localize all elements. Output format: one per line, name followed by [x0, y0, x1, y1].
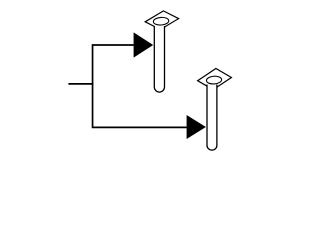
- indicator E2: tube stem: [207, 85, 217, 151]
- indicator E1: diamond head: [145, 11, 178, 30]
- indicator E1: tube stem: [154, 26, 164, 92]
- arrowhead A1 (top branch): [134, 32, 154, 57]
- wire: input stub: [68, 83, 93, 85]
- indicator E2: lens ellipse: [206, 76, 222, 85]
- indicator E1: lens ellipse: [153, 17, 169, 26]
- indicator E2: diamond head: [198, 69, 232, 90]
- wire: vertical trunk with top and bottom branches: [93, 45, 187, 127]
- arrowhead A2 (bottom branch): [187, 115, 206, 139]
